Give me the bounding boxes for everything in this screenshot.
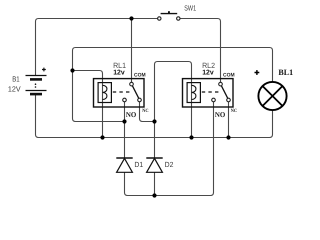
svg-text:NO: NO <box>126 110 137 119</box>
svg-text:COM: COM <box>134 72 146 78</box>
svg-text:COM: COM <box>223 72 235 78</box>
svg-text:SW1: SW1 <box>184 4 196 13</box>
svg-text:NC: NC <box>142 108 149 114</box>
svg-text:12v: 12v <box>202 69 214 76</box>
svg-text:NO: NO <box>215 110 226 119</box>
svg-text:B1: B1 <box>12 75 19 84</box>
svg-text:12V: 12V <box>8 85 21 94</box>
svg-text:D1: D1 <box>134 160 143 169</box>
svg-text:BL1: BL1 <box>278 68 293 77</box>
svg-text:NC: NC <box>231 108 238 114</box>
svg-text:12v: 12v <box>113 69 125 76</box>
svg-text:D2: D2 <box>165 160 174 169</box>
